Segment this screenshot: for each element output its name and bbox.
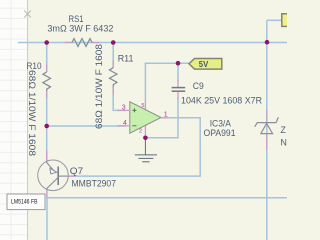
- resistor RS1 body: [72, 39, 92, 47]
- resistor R11 pin stubs: [112, 60, 114, 67]
- pin 4 stub: [117, 125, 130, 127]
- wire C9 top lead net: [177, 63, 179, 81]
- wire R11 bottom to op-amp pin3: [113, 87, 125, 110]
- zener pin stubs: [266, 110, 268, 150]
- svg-text:1: 1: [164, 111, 168, 118]
- pin 2 stub: [144, 125, 146, 138]
- collector lead: [46, 188, 48, 197]
- pin 5 stub: [144, 101, 146, 110]
- svg-text:MMBT2907: MMBT2907: [72, 178, 117, 188]
- node inverting input tap: [44, 124, 49, 129]
- node op-amp ground: [143, 136, 148, 141]
- base bar: [57, 167, 59, 186]
- svg-text:OPA991: OPA991: [204, 128, 236, 138]
- frame border line: [27, 0, 29, 240]
- emitter lead: [46, 156, 48, 163]
- wire right top to yellow flag: [267, 19, 282, 21]
- svg-text:68Ω 1/10W F 1608: 68Ω 1/10W F 1608: [94, 44, 104, 129]
- wire R10 bottom to Q7 emitter: [46, 91, 48, 157]
- wire op-amp output to Q7 base: [69, 118, 200, 176]
- svg-text:N: N: [280, 137, 287, 147]
- emitter diagonal: [47, 163, 54, 171]
- svg-text:C9: C9: [193, 81, 204, 91]
- svg-text:3mΩ 3W F 6432: 3mΩ 3W F 6432: [47, 23, 113, 33]
- svg-text:Z: Z: [280, 125, 286, 135]
- node C9 5V tap: [176, 61, 181, 66]
- wire main top net: [18, 42, 287, 44]
- svg-text:5: 5: [141, 103, 144, 109]
- svg-text:4: 4: [123, 120, 127, 127]
- collector diagonal: [47, 178, 58, 189]
- svg-text:3: 3: [122, 105, 126, 112]
- output pin 1 stub: [161, 117, 168, 119]
- wire 5V net from op-amp pin5 to flag: [145, 63, 189, 101]
- triangle body: [130, 102, 161, 133]
- plus mark: [132, 108, 136, 126]
- pin 3 stub: [117, 109, 130, 111]
- wire Q7 collector down to bottom edge: [46, 197, 48, 240]
- wire R11 top segment: [112, 43, 114, 68]
- capacitor C9 plates: [172, 87, 186, 89]
- wire inverting input net to op-amp pin4: [47, 125, 126, 127]
- node R11 top: [111, 40, 116, 45]
- zener labels: [280, 125, 287, 148]
- resistor R11 body: [109, 68, 117, 88]
- wire right column vertical: [266, 20, 268, 240]
- svg-text:104K 25V 1608 X7R: 104K 25V 1608 X7R: [181, 95, 262, 105]
- svg-text:R11: R11: [118, 54, 134, 64]
- resistor R10 pin stubs: [46, 65, 48, 73]
- wire C9 bottom to ground node: [146, 98, 178, 138]
- svg-text:68Ω 1/10W F 1608: 68Ω 1/10W F 1608: [27, 70, 37, 156]
- resistor RS1 pin stubs: [65, 42, 73, 44]
- svg-text:IC3/A: IC3/A: [210, 118, 231, 128]
- transistor Q7 pin stubs (emitter/collector/base): [46, 151, 48, 161]
- resistor R10 body: [43, 72, 51, 91]
- svg-text:Q7: Q7: [70, 166, 83, 176]
- capacitor C9 pin leads: [177, 80, 179, 88]
- node R10 top: [44, 40, 49, 45]
- node right column top: [265, 40, 270, 45]
- frame tick cross: [24, 11, 31, 18]
- svg-text:5V: 5V: [199, 60, 209, 69]
- left white panel: [0, 0, 28, 240]
- wire R10 top segment: [46, 43, 48, 73]
- base pin: [58, 175, 69, 177]
- wire FB horizontal bottom net: [47, 197, 287, 199]
- transistor Q7 emitter arrow: [50, 168, 57, 174]
- svg-text:LM5146 FB: LM5146 FB: [11, 199, 38, 206]
- svg-text:2: 2: [139, 129, 142, 135]
